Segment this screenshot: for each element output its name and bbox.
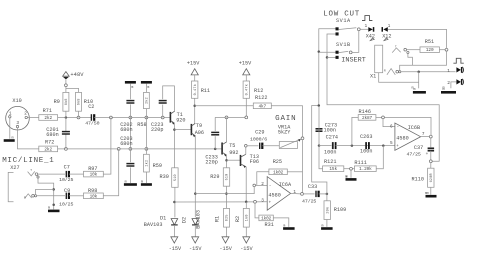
svg-text:R30: R30 [160,174,169,180]
svg-text:R146: R146 [359,109,371,115]
svg-text:R121: R121 [324,159,336,165]
svg-text:120: 120 [426,48,434,53]
svg-text:D1: D1 [160,216,166,222]
svg-text:1k02: 1k02 [261,217,272,222]
svg-text:C2: C2 [88,104,94,110]
svg-text:220p: 220p [151,127,163,133]
svg-text:SV1A: SV1A [336,18,351,24]
svg-text:2: 2 [24,112,27,117]
svg-text:5kZY: 5kZY [278,129,291,135]
svg-text:R31: R31 [265,222,274,228]
svg-text:R11: R11 [201,88,210,94]
svg-text:510: 510 [226,174,230,181]
svg-text:m: m [48,207,50,211]
svg-text:R1: R1 [215,216,221,222]
svg-text:2k87: 2k87 [362,116,373,121]
svg-text:5: 5 [390,141,393,146]
svg-text:2k2: 2k2 [44,148,52,153]
svg-text:R25: R25 [273,159,282,165]
svg-text:T5: T5 [229,143,235,149]
svg-text:D2: D2 [182,217,188,223]
svg-text:m: m [321,224,323,228]
svg-text:15k: 15k [329,167,337,172]
svg-text:1.20k: 1.20k [359,167,372,172]
svg-text:m: m [131,86,133,90]
svg-text:INSERT: INSERT [341,57,365,65]
svg-text:510: 510 [174,174,178,181]
svg-text:100n: 100n [324,127,336,133]
svg-text:+: + [426,152,429,157]
svg-text:A06: A06 [195,130,204,136]
svg-text:2: 2 [447,80,450,86]
svg-text:992: 992 [229,150,238,156]
svg-text:680n: 680n [120,127,132,133]
svg-text:R122: R122 [255,95,267,101]
svg-text:47/25: 47/25 [302,198,316,204]
svg-text:F06: F06 [250,159,259,165]
svg-text:0.47k: 0.47k [193,84,198,95]
svg-text:-15V: -15V [189,246,202,252]
svg-text:C7: C7 [64,165,70,171]
svg-text:C263: C263 [360,134,372,140]
svg-text:m: m [283,224,285,228]
svg-text:+15V: +15V [239,61,252,67]
svg-text:R111: R111 [354,160,366,166]
svg-text:4k7: 4k7 [259,104,267,109]
svg-text:-: - [397,125,400,130]
svg-text:m: m [425,192,427,196]
svg-text:-: - [269,184,272,189]
svg-text:m: m [141,180,143,184]
svg-text:m: m [147,86,149,90]
svg-text:m: m [345,175,347,179]
svg-text:C274: C274 [326,135,338,141]
svg-text:1: 1 [293,190,296,195]
svg-text:R9: R9 [54,99,60,105]
svg-text:T9: T9 [196,123,202,129]
svg-text:0.47k: 0.47k [245,84,250,95]
svg-text:R58: R58 [137,122,146,128]
svg-text:GAIN: GAIN [275,115,296,123]
svg-text:-15V: -15V [219,246,232,252]
svg-text:7: 7 [422,132,425,137]
svg-text:+48V: +48V [70,72,84,78]
svg-text:47/50: 47/50 [85,120,99,126]
svg-text:R29: R29 [210,174,219,180]
svg-text:1k02: 1k02 [273,170,284,175]
svg-text:100n: 100n [324,150,336,156]
svg-text:m: m [443,88,445,92]
svg-text:R110: R110 [412,177,424,183]
svg-text:m: m [125,180,127,184]
svg-text:MIC/LINE_1: MIC/LINE_1 [2,157,54,165]
svg-text:C29: C29 [255,130,264,136]
svg-text:920: 920 [176,118,185,124]
svg-text:R2: R2 [235,216,241,222]
svg-text:C37: C37 [414,145,423,151]
svg-text:10k: 10k [90,173,98,178]
svg-text:4580: 4580 [396,136,408,142]
svg-text:100n: 100n [360,148,372,154]
svg-text:680n: 680n [120,141,132,147]
svg-text:2k2: 2k2 [44,116,52,121]
svg-text:6k8: 6k8 [77,98,82,105]
svg-text:1000/6: 1000/6 [250,136,267,142]
svg-text:10/25: 10/25 [59,177,73,183]
svg-text:R10: R10 [84,99,93,105]
svg-text:R59: R59 [153,163,162,169]
svg-text:1: 1 [447,68,450,74]
svg-text:X10: X10 [12,98,21,104]
svg-text:-15V: -15V [169,246,182,252]
svg-text:X27: X27 [10,165,19,171]
svg-text:IC6B: IC6B [408,125,420,131]
svg-text:620R: 620R [430,173,434,182]
svg-text:m: m [12,137,14,141]
svg-text:BAV103: BAV103 [144,222,163,228]
svg-text:3: 3 [261,198,264,203]
svg-text:680n: 680n [46,132,58,138]
svg-text:m: m [413,88,415,92]
svg-text:10k: 10k [90,194,98,199]
svg-text:2: 2 [261,182,264,187]
svg-text:1k0: 1k0 [245,214,250,221]
svg-text:220p: 220p [205,160,217,166]
svg-text:47/25: 47/25 [407,152,421,158]
svg-text:BAV103: BAV103 [196,210,202,229]
svg-text:20k: 20k [325,207,330,214]
svg-text:+15V: +15V [187,61,200,67]
svg-text:1k2: 1k2 [145,160,150,167]
svg-text:SV1B: SV1B [336,42,351,48]
svg-text:6: 6 [390,124,393,129]
svg-text:-15V: -15V [240,246,253,252]
svg-text:825: 825 [226,214,230,221]
svg-text:X1: X1 [370,74,376,80]
svg-text:10/25: 10/25 [59,202,73,208]
svg-text:6k8: 6k8 [64,98,69,105]
svg-text:R71: R71 [43,108,52,114]
svg-text:R12: R12 [254,88,263,94]
svg-text:2k2: 2k2 [145,97,150,104]
svg-text:4580: 4580 [268,192,280,198]
svg-text:C33: C33 [308,184,317,190]
svg-text:R72: R72 [45,139,54,145]
svg-text:IC6A: IC6A [279,182,292,188]
svg-text:R51: R51 [425,39,434,45]
svg-text:R109: R109 [334,207,346,213]
